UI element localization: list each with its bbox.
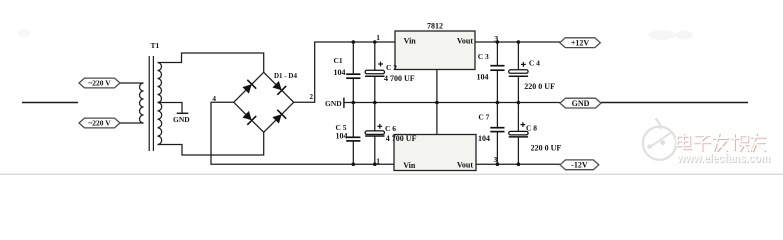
junction C5/negative rail (352, 162, 356, 166)
diode D3 (bridge left-to-bottom) (234, 102, 264, 132)
transformer T1 secondary upper winding (158, 63, 162, 103)
port ~220V (lower input) (79, 118, 120, 128)
wire: +12V rail (475, 41, 560, 43)
svg-text:C 3: C 3 (478, 52, 489, 61)
svg-text:GND: GND (325, 99, 342, 108)
svg-text:Vin: Vin (403, 161, 416, 170)
capacitor C6 (electrolytic) (365, 131, 384, 136)
wire: C3/C7 vertical (496, 42, 498, 164)
svg-text:104: 104 (477, 73, 489, 82)
wire: GND mid rail (344, 102, 560, 104)
junction C4-C8/GND rail (517, 101, 521, 105)
svg-text:~220 V: ~220 V (88, 119, 111, 128)
wire: -12V rail (476, 163, 560, 165)
label C3 (477, 52, 489, 81)
svg-text:7812: 7812 (427, 22, 443, 31)
wire: center tap stub (158, 103, 183, 114)
svg-text:220 0 UF: 220 0 UF (524, 82, 555, 91)
junction C4/+12V rail (517, 40, 521, 44)
svg-text:Vin: Vin (404, 37, 417, 46)
svg-text:C 2: C 2 (386, 63, 397, 72)
watermark logo circle (643, 119, 676, 160)
wire: bridge pin 2 to 7812 input (294, 42, 395, 102)
port +12V (560, 38, 601, 48)
junction regulator GND pins/GND rail (435, 101, 439, 105)
svg-text:D1 - D4: D1 - D4 (274, 72, 297, 80)
svg-text:4: 4 (212, 94, 216, 103)
label C7 (478, 112, 490, 142)
capacitor C2 (electrolytic) (365, 70, 384, 76)
svg-text:1: 1 (376, 156, 380, 165)
svg-text:C 4: C 4 (529, 58, 540, 67)
svg-text:220 0 UF: 220 0 UF (531, 143, 562, 152)
svg-text:C 7: C 7 (478, 112, 489, 121)
svg-text:1: 1 (376, 33, 380, 42)
wire: upper input to primary (120, 82, 144, 84)
wire: lower input to primary (120, 122, 144, 124)
svg-text:104: 104 (334, 68, 346, 77)
regulator U1 7812 (395, 22, 475, 70)
wire: secondary top to bridge top vertex (158, 53, 264, 72)
svg-text:-12V: -12V (571, 161, 588, 170)
junction C6/negative rail (373, 162, 377, 166)
junction C2-C6/GND rail (373, 101, 377, 105)
label C4 (524, 58, 555, 91)
svg-text:GND: GND (173, 115, 190, 124)
label C5 (336, 123, 348, 140)
wire: regulators GND pin (436, 70, 438, 135)
junction C3/+12V rail (496, 40, 500, 44)
transformer T1 primary winding (140, 83, 144, 123)
bottom border line (0, 173, 783, 175)
svg-text:T1: T1 (151, 41, 160, 50)
svg-text:Vout: Vout (457, 161, 473, 170)
junction C2/top rail (373, 40, 377, 44)
capacitor C3 (490, 66, 504, 71)
capacitor C7 (490, 128, 504, 132)
svg-text:2: 2 (310, 93, 314, 101)
svg-text:www.elecfans.com: www.elecfans.com (676, 151, 770, 165)
transformer T1 secondary lower winding (158, 103, 162, 145)
svg-text:C 6: C 6 (385, 124, 396, 133)
svg-text:Vout: Vout (457, 37, 473, 46)
wire: C4/C8 vertical (517, 42, 519, 164)
label C8 (526, 124, 561, 153)
svg-text:C 8: C 8 (526, 124, 537, 133)
wire: left GND stub (22, 102, 78, 104)
power port GND (center tap) (173, 113, 190, 124)
svg-text:~220 V: ~220 V (88, 79, 111, 88)
port GND (output) (560, 98, 601, 108)
junction C7/-12V rail (496, 162, 500, 166)
svg-text:4 700 UF: 4 700 UF (386, 134, 417, 143)
svg-text:+12V: +12V (571, 38, 590, 47)
watermark CJK text (stroke approximation) (678, 135, 766, 152)
faint smudge top right (17, 29, 693, 40)
svg-text:4 700 UF: 4 700 UF (384, 74, 415, 83)
svg-text:104: 104 (478, 134, 490, 143)
label C6 (385, 124, 417, 143)
capacitor C1 (346, 74, 360, 78)
junction C3-C7/GND rail (496, 101, 500, 105)
diode D4 (bridge bottom-to-right) (264, 102, 294, 132)
transformer T1 core (149, 56, 153, 151)
wire: secondary bottom to bridge bottom vertex (158, 132, 264, 155)
diode D2 (bridge top-to-right) (264, 72, 294, 102)
diode D1 (bridge left-to-top) (234, 72, 264, 102)
svg-text:C1: C1 (334, 56, 343, 65)
regulator U2 7912 (394, 135, 476, 171)
port -12V (560, 160, 599, 170)
port ~220V (upper input) (79, 78, 120, 88)
svg-text:GND: GND (572, 99, 590, 108)
junction C1/top rail (352, 40, 356, 44)
junction C8/-12V rail (517, 162, 521, 166)
wire: C1/C5 vertical (352, 42, 354, 164)
capacitor C5 (346, 137, 360, 141)
wire: bridge pin 4 to negative rail (211, 102, 394, 164)
wire: C2/C6 vertical (374, 42, 376, 164)
wire: GND rail right extension (601, 102, 748, 104)
capacitor C4 (electrolytic) (509, 70, 528, 76)
label C1 (334, 56, 346, 77)
capacitor C8 (electrolytic) (509, 131, 528, 137)
label C2 (384, 63, 415, 83)
power port GND (mid rail) (325, 98, 344, 109)
junction C1-C5/GND rail (352, 101, 356, 105)
svg-text:104: 104 (336, 132, 348, 141)
